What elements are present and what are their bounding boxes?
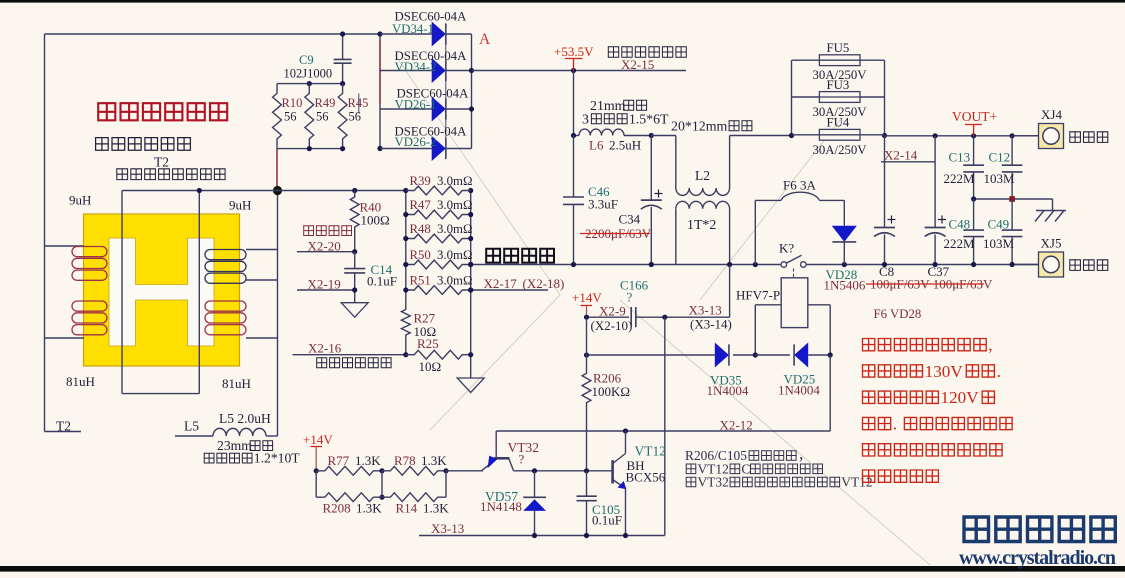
- svg-text:L2: L2: [695, 168, 710, 183]
- svg-text:130V: 130V: [925, 362, 964, 381]
- wire base row: [314, 468, 319, 473]
- winding right top: [205, 250, 246, 260]
- wire right vertical to L5: [277, 191, 279, 437]
- wire relay left: [755, 304, 781, 306]
- svg-text:FU3: FU3: [827, 78, 850, 92]
- svg-text:F6 3A: F6 3A: [783, 178, 816, 193]
- ground below bank: [457, 378, 484, 393]
- svg-text:X2-12: X2-12: [720, 418, 753, 433]
- svg-text:XJ4: XJ4: [1041, 107, 1062, 122]
- svg-text:2.5uH: 2.5uH: [609, 138, 641, 153]
- ground below C14: [341, 303, 368, 318]
- wire diode cathode bus: [445, 26, 447, 156]
- winding right bottom: [205, 301, 246, 311]
- wire left winding top connect: [45, 245, 85, 247]
- resistor R50: [406, 260, 471, 269]
- svg-text:10Ω: 10Ω: [419, 359, 442, 374]
- svg-text:F6 VD28: F6 VD28: [874, 307, 922, 321]
- bottom border bar: [0, 566, 1125, 572]
- svg-text:1.3K: 1.3K: [355, 453, 381, 468]
- svg-text:1.3K: 1.3K: [421, 453, 447, 468]
- watermark diagonal streaks: [395, 55, 930, 565]
- svg-text:100Ω: 100Ω: [361, 213, 390, 228]
- transformer T2 core: [84, 214, 240, 366]
- wire C166 to X3-13 drop: [636, 316, 730, 318]
- transformer inner wire right: [198, 191, 200, 394]
- wire diode left bus red segment: [379, 40, 381, 104]
- fuse FU5: [792, 59, 885, 61]
- label 电流采样: [304, 226, 314, 236]
- inductor L5: [175, 435, 213, 437]
- label 接线柱 XJ5: [1070, 260, 1081, 271]
- terminal XJ5: [1012, 264, 1038, 266]
- inductor L2 top winding: [675, 136, 677, 189]
- capacitor C166: [630, 307, 632, 327]
- svg-text:VT12: VT12: [635, 444, 667, 459]
- label 磁集成倍流变压器: [117, 169, 128, 180]
- label 系统地线: [486, 249, 500, 263]
- capacitor C8 vertical: [884, 136, 886, 228]
- resistor R27: [401, 304, 410, 341]
- svg-text:.: .: [997, 362, 1001, 381]
- svg-text:R45: R45: [348, 96, 369, 110]
- svg-text:0.1uF: 0.1uF: [592, 513, 622, 528]
- stray mark near R45: [358, 94, 360, 114]
- svg-text:T2: T2: [56, 419, 71, 434]
- capacitor C37 vertical: [934, 136, 936, 228]
- svg-text:3.0mΩ: 3.0mΩ: [437, 174, 472, 188]
- svg-text:FU5: FU5: [827, 41, 850, 55]
- wire relay right: [808, 304, 830, 306]
- label 电压采样负极: [317, 358, 327, 368]
- relay coil HFV7-P: [781, 278, 808, 328]
- transformer inner wire left: [121, 191, 123, 394]
- svg-text:0.1uF: 0.1uF: [367, 274, 397, 289]
- svg-text:R47: R47: [410, 198, 432, 212]
- svg-text:120V: 120V: [941, 388, 980, 407]
- svg-text:X2-16: X2-16: [308, 341, 342, 356]
- svg-text:VD34-1: VD34-1: [392, 22, 434, 36]
- resistor R14: [382, 493, 446, 502]
- svg-text:1N4148: 1N4148: [480, 499, 522, 514]
- wire to VT32: [446, 470, 483, 472]
- wire VD35 VD25 row: [587, 354, 715, 356]
- svg-text:T2: T2: [154, 155, 169, 170]
- diode VD25: [755, 354, 790, 356]
- label 接线柱 XJ4: [1070, 132, 1081, 143]
- svg-text:,: ,: [988, 335, 992, 354]
- svg-text:R51: R51: [410, 274, 431, 288]
- svg-text:103M: 103M: [983, 236, 1015, 251]
- subtitle 改成倍压电路: [96, 138, 109, 151]
- terminal XJ4: [1012, 135, 1038, 137]
- capacitor C14: [354, 252, 356, 269]
- svg-text:102J1000: 102J1000: [284, 67, 333, 81]
- label 电压采样正极: [608, 47, 618, 57]
- svg-text:L5 2.0uH: L5 2.0uH: [219, 411, 271, 426]
- svg-text:X3-13: X3-13: [431, 521, 464, 536]
- svg-text:?: ?: [627, 290, 633, 305]
- wire R10 bank bottom: [277, 148, 343, 150]
- capacitor C46: [573, 136, 575, 198]
- svg-text:20*12mm: 20*12mm: [671, 119, 727, 134]
- svg-text:R10: R10: [282, 96, 303, 110]
- svg-text:VT32: VT32: [697, 475, 728, 490]
- svg-text:222M: 222M: [944, 236, 976, 251]
- capacitor C12: [1011, 136, 1013, 165]
- svg-text:(X3-14): (X3-14): [690, 317, 732, 332]
- svg-text:C9: C9: [299, 53, 314, 67]
- svg-text:1N4004: 1N4004: [707, 383, 749, 398]
- transistor VT12: [611, 460, 614, 483]
- resistor R40: [350, 191, 359, 234]
- wire fuse right bus: [884, 60, 886, 135]
- svg-text:VD34-2: VD34-2: [395, 60, 437, 74]
- svg-text:56: 56: [284, 110, 297, 124]
- svg-text:100KΩ: 100KΩ: [592, 384, 631, 399]
- wire X2-17 stub: [471, 289, 548, 291]
- svg-text:R49: R49: [315, 96, 336, 110]
- resistor R206: [586, 317, 588, 367]
- diode VD34-1: [380, 33, 432, 35]
- svg-text:R50: R50: [410, 248, 431, 262]
- svg-text:3.0mΩ: 3.0mΩ: [437, 248, 472, 262]
- title 倍流整流电路: [98, 103, 115, 120]
- wire base row mid: [535, 470, 614, 472]
- resistor R45: [338, 84, 347, 149]
- wire T2 stub: [45, 431, 82, 433]
- svg-text:+53.5V: +53.5V: [554, 44, 594, 59]
- capacitor C48: [973, 199, 975, 230]
- node red junction: [1009, 196, 1015, 202]
- wire +53.5V vertical: [573, 71, 575, 136]
- fuse F6: [754, 200, 756, 264]
- svg-text:3.3uF: 3.3uF: [588, 197, 618, 212]
- resistor R25: [406, 350, 471, 359]
- resistor R208: [316, 493, 382, 502]
- wire bank right bus: [470, 191, 472, 379]
- wire R10 bank top: [277, 83, 343, 85]
- red note line2: [863, 365, 875, 377]
- diode VD34-2: [380, 70, 432, 72]
- wire left winding bottom connect: [45, 337, 85, 339]
- wire parallel row links: [315, 471, 317, 497]
- svg-text:(X2-10): (X2-10): [591, 318, 633, 333]
- svg-text:VD26-2: VD26-2: [395, 135, 437, 149]
- wire top-left frame: [45, 33, 381, 35]
- resistor R10: [273, 84, 282, 149]
- label 双股直径1.2*10T: [204, 453, 214, 463]
- resistor R78: [382, 466, 446, 475]
- svg-text:56: 56: [316, 110, 329, 124]
- svg-text:R78: R78: [394, 453, 416, 468]
- svg-text:L5: L5: [184, 419, 199, 434]
- svg-text:BCX56: BCX56: [626, 470, 666, 485]
- red note line3: [863, 391, 875, 403]
- note line3: [686, 477, 696, 487]
- svg-text:9uH: 9uH: [69, 193, 91, 208]
- wire output rail: [885, 135, 1039, 137]
- svg-text:1N5406: 1N5406: [824, 278, 866, 293]
- wire rail to L2: [651, 135, 676, 137]
- wire ground rail right: [806, 264, 1038, 266]
- svg-text:C48: C48: [949, 217, 971, 232]
- svg-text:L6: L6: [589, 138, 604, 153]
- wire bank left bus: [405, 191, 407, 305]
- svg-text:C49: C49: [988, 217, 1010, 232]
- capacitor C105: [586, 471, 588, 496]
- svg-text:?: ?: [519, 452, 525, 467]
- top border bar: [0, 0, 1125, 3]
- svg-text:www.crystalradio.cn: www.crystalradio.cn: [959, 547, 1116, 569]
- svg-text:X2-19: X2-19: [308, 277, 341, 292]
- node junction big dot: [273, 186, 282, 195]
- inductor L2 bottom winding: [676, 201, 730, 208]
- wire fuse left bus: [791, 60, 793, 135]
- wire red drop to node A: [276, 149, 278, 191]
- svg-text:1T*2: 1T*2: [687, 218, 716, 233]
- svg-text:R39: R39: [410, 174, 431, 188]
- svg-text:X2-17: X2-17: [484, 276, 518, 291]
- svg-text:81uH: 81uH: [66, 374, 95, 389]
- svg-text:103M: 103M: [984, 171, 1016, 186]
- wire X2-16 stub: [293, 354, 406, 356]
- svg-text:1.5*6T: 1.5*6T: [629, 112, 669, 127]
- wire mid ground: [974, 198, 1053, 200]
- diode VD26-2: [380, 148, 432, 150]
- svg-text:HFV7-P: HFV7-P: [736, 288, 780, 303]
- wire rectifier output: [472, 70, 687, 72]
- wire L2 to fuse block: [730, 135, 792, 137]
- svg-text:1.3K: 1.3K: [423, 501, 449, 516]
- wire node A to resistor bank: [122, 190, 406, 192]
- diode VD35: [715, 343, 729, 368]
- svg-text:X2-15: X2-15: [621, 57, 654, 72]
- resistor R47: [406, 210, 471, 219]
- wire X2-9 to C166: [587, 316, 630, 318]
- transformer bottom loop wire: [122, 393, 199, 395]
- svg-text:A: A: [479, 31, 491, 48]
- svg-text:3.0mΩ: 3.0mΩ: [437, 198, 472, 212]
- svg-text:+14V: +14V: [572, 290, 602, 305]
- svg-text:3.0mΩ: 3.0mΩ: [437, 222, 472, 236]
- wire bottom row: [419, 535, 665, 537]
- svg-text:C12: C12: [989, 150, 1011, 165]
- resistor R49: [305, 84, 314, 149]
- svg-text:FU4: FU4: [827, 116, 850, 130]
- power +53.5V mark: [565, 58, 583, 60]
- resistor R51: [406, 286, 471, 295]
- svg-text:1N4004: 1N4004: [778, 383, 820, 398]
- diode VD57: [534, 471, 536, 498]
- svg-text:C34: C34: [619, 212, 641, 227]
- wire X2-20 stub: [297, 251, 355, 253]
- wire X2-19 stub: [297, 289, 355, 291]
- wire L2 drop to row: [729, 265, 731, 318]
- svg-text:C: C: [741, 461, 750, 476]
- svg-text:XJ5: XJ5: [1041, 236, 1062, 251]
- wire diode left bus: [379, 34, 381, 149]
- resistor R77: [316, 466, 382, 475]
- svg-text:1.3K: 1.3K: [356, 501, 382, 516]
- red note line5: [863, 444, 875, 456]
- resistor R39: [406, 186, 471, 195]
- diode VD26-1: [380, 108, 432, 110]
- wire diode right bus: [471, 34, 473, 149]
- earth ground symbol: [1052, 199, 1054, 211]
- svg-text:VD26-1: VD26-1: [395, 98, 437, 112]
- svg-text:23mm: 23mm: [217, 438, 252, 453]
- wire right winding connects: [246, 249, 278, 251]
- resistor R48: [406, 234, 471, 243]
- note line2: [686, 464, 696, 474]
- svg-text:R77: R77: [328, 453, 350, 468]
- capacitor C49: [1011, 199, 1013, 230]
- fuse FU3: [792, 96, 885, 98]
- svg-text:1.2*10T: 1.2*10T: [254, 451, 301, 466]
- svg-text:81uH: 81uH: [222, 376, 251, 391]
- switch K?: [781, 262, 787, 268]
- svg-text:X3-13: X3-13: [689, 303, 722, 318]
- capacitor C34: [650, 136, 652, 201]
- svg-text:VOUT+: VOUT+: [952, 109, 997, 124]
- svg-text:+14V: +14V: [303, 432, 333, 447]
- svg-text:R48: R48: [410, 222, 431, 236]
- transistor VT32: [494, 457, 510, 460]
- svg-text:，: ，: [798, 448, 811, 463]
- svg-text:X2-9: X2-9: [599, 304, 626, 319]
- svg-text:K?: K?: [779, 241, 794, 256]
- svg-text:30A/250V: 30A/250V: [813, 143, 868, 157]
- svg-text:9uH: 9uH: [229, 198, 251, 213]
- wire X2-12 net: [829, 355, 831, 431]
- svg-text:222M: 222M: [944, 171, 976, 186]
- diode VD28: [843, 200, 845, 225]
- svg-text:C166: C166: [620, 278, 649, 293]
- winding left top: [72, 247, 107, 257]
- svg-text:(X2-18): (X2-18): [523, 276, 565, 291]
- inductor L6: [574, 135, 580, 137]
- svg-text:21mm: 21mm: [590, 99, 626, 114]
- svg-text:R14: R14: [396, 501, 418, 516]
- wire system ground rail: [471, 264, 781, 266]
- red note line4: [863, 417, 875, 429]
- svg-text:X2-14: X2-14: [884, 148, 918, 163]
- wire right drop x665: [664, 317, 666, 535]
- svg-text:C13: C13: [949, 150, 971, 165]
- svg-text:3: 3: [582, 112, 589, 127]
- winding left bottom: [72, 301, 107, 311]
- logo 矿石收音机: [964, 517, 989, 542]
- red note line1: [863, 339, 875, 351]
- svg-text:.: .: [893, 414, 897, 433]
- svg-text:R208: R208: [323, 501, 351, 516]
- capacitor C13: [973, 136, 975, 165]
- transformer core window white H: [109, 238, 214, 346]
- relay dashed link: [793, 269, 795, 278]
- red note line6: [863, 470, 875, 482]
- svg-text:R25: R25: [417, 336, 439, 351]
- fuse FU4: [792, 134, 885, 136]
- capacitor C9: [342, 34, 344, 59]
- svg-text:3.0mΩ: 3.0mΩ: [437, 274, 472, 288]
